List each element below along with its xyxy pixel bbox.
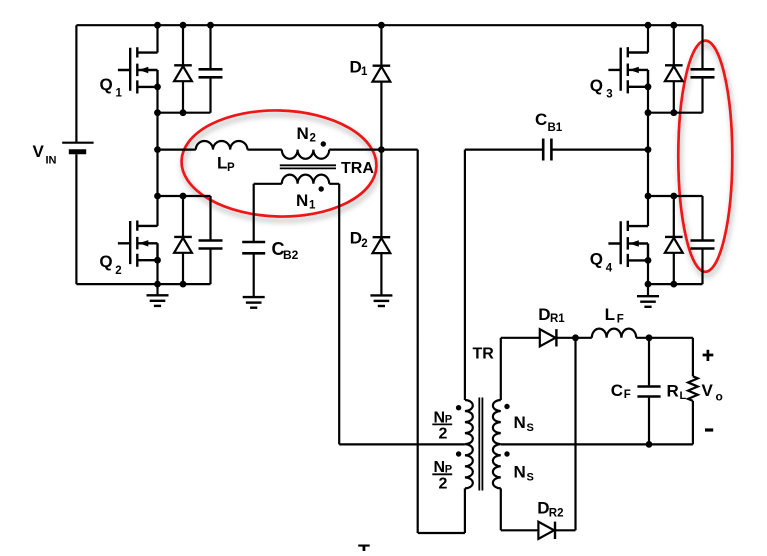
svg-text:R2: R2: [549, 508, 564, 520]
svg-text:T: T: [358, 541, 370, 551]
svg-text:C: C: [611, 381, 623, 400]
svg-text:1: 1: [309, 200, 316, 212]
svg-text:TRA: TRA: [341, 160, 374, 177]
svg-text:2: 2: [439, 476, 448, 493]
svg-text:3: 3: [606, 88, 612, 100]
svg-text:2: 2: [115, 265, 121, 277]
svg-text:N: N: [296, 191, 308, 210]
svg-text:Q: Q: [99, 252, 112, 271]
svg-text:D: D: [350, 58, 362, 77]
svg-text:B1: B1: [548, 122, 563, 134]
svg-text:F: F: [624, 389, 631, 401]
svg-text:C: C: [535, 110, 547, 129]
svg-text:R: R: [667, 382, 679, 401]
svg-text:L: L: [605, 305, 615, 324]
svg-text:IN: IN: [46, 154, 57, 166]
svg-text:D: D: [350, 228, 362, 247]
svg-text:o: o: [716, 390, 723, 404]
svg-text:L: L: [217, 154, 227, 173]
svg-text:P: P: [227, 162, 235, 174]
svg-text:1: 1: [361, 66, 368, 78]
svg-text:D: D: [537, 498, 549, 517]
svg-text:N: N: [514, 463, 526, 482]
svg-text:V: V: [702, 381, 714, 400]
svg-text:V: V: [33, 142, 45, 161]
svg-text:D: D: [538, 305, 550, 324]
svg-text:2: 2: [439, 426, 448, 443]
svg-text:4: 4: [606, 262, 613, 274]
svg-text:2: 2: [361, 238, 367, 250]
svg-text:Q: Q: [590, 76, 603, 95]
svg-text:1: 1: [116, 87, 123, 99]
svg-text:R1: R1: [550, 313, 565, 325]
svg-text:N: N: [297, 124, 309, 143]
svg-text:F: F: [617, 314, 624, 326]
svg-text:N: N: [514, 413, 526, 432]
svg-text:2: 2: [310, 133, 316, 145]
svg-text:Q: Q: [590, 250, 603, 269]
svg-text:B2: B2: [283, 248, 299, 262]
svg-text:S: S: [527, 422, 534, 434]
svg-text:TR: TR: [473, 346, 495, 363]
svg-text:S: S: [527, 472, 534, 484]
svg-text:Q: Q: [100, 75, 113, 94]
svg-text:L: L: [680, 390, 687, 402]
